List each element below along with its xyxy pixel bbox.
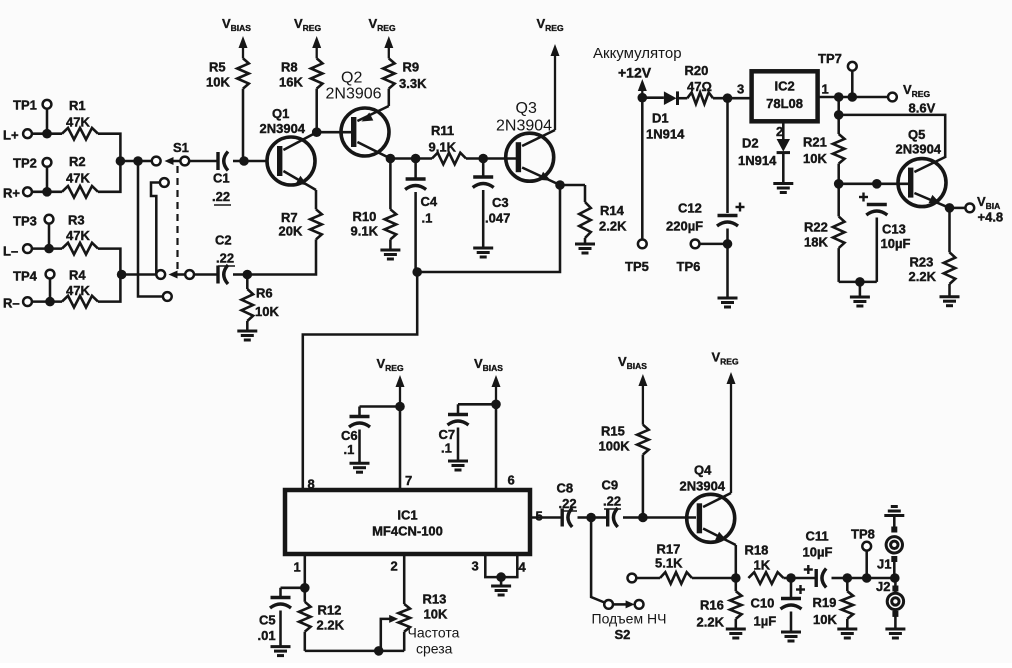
svg-text:C12: C12 [678, 201, 702, 216]
resistor R3 47K [62, 213, 120, 272]
pin 8 label IC1 [308, 477, 315, 492]
wire R22/C13 bottoms [839, 281, 877, 284]
ground below R23 [940, 297, 960, 306]
resistor R6 10K [242, 275, 280, 331]
svg-text:C5: C5 [259, 613, 276, 628]
svg-text:.1: .1 [422, 211, 433, 226]
pin 3 label IC1 [472, 559, 479, 574]
wire Q1 collector to Q2 base [317, 131, 351, 134]
svg-text:5: 5 [536, 509, 543, 524]
resistor R20 47Ω [685, 63, 714, 104]
svg-text:10K: 10K [255, 304, 279, 319]
svg-text:R15: R15 [601, 424, 625, 439]
transistor Q4 2N3904 [680, 463, 736, 546]
capacitor C5 .01 [258, 588, 305, 646]
power arrow +12V [638, 79, 647, 98]
wire +12V to TP5 [641, 98, 644, 240]
svg-text:S1: S1 [173, 140, 189, 155]
ground below R10 [380, 250, 400, 259]
transistor Q3 2N3904 [496, 100, 560, 185]
wire IC2 pin 1 output rail [818, 96, 889, 99]
node R18/C10/C11 [786, 573, 796, 583]
wire pin 5 to C8 [530, 516, 562, 519]
IC IC2 78L08 [752, 71, 818, 121]
svg-text:R19: R19 [813, 595, 837, 610]
wire R- line [32, 300, 62, 303]
ground below C12 [718, 298, 738, 307]
svg-text:L+: L+ [3, 128, 19, 143]
svg-text:78L08: 78L08 [766, 96, 803, 111]
svg-text:R23: R23 [910, 255, 934, 270]
svg-text:2N3904: 2N3904 [680, 479, 726, 494]
node A summing junction R1/R2 [116, 156, 138, 166]
test point TP1 [13, 98, 51, 134]
svg-text:D1: D1 [652, 111, 669, 126]
svg-text:TP1: TP1 [13, 98, 37, 113]
IC IC1 MF4CN-100 [285, 490, 530, 554]
node +12V input [638, 93, 648, 103]
power flag V_BIAS (IC1 pin 6) [474, 356, 503, 404]
svg-text:5.1K: 5.1K [655, 556, 683, 571]
resistor R18 1K [745, 543, 792, 584]
ground below C5 [271, 647, 291, 656]
test point TP6 [677, 240, 728, 275]
svg-text:Q4: Q4 [694, 463, 712, 478]
svg-text:C13: C13 [882, 222, 906, 237]
power flag V_REG (Q4 collector) [712, 350, 739, 494]
ground below pins 3-4 [491, 586, 511, 595]
ground above J1 (inverted) [884, 507, 904, 516]
svg-text:R9: R9 [403, 60, 420, 75]
svg-text:1: 1 [294, 560, 301, 575]
wire R+ line [32, 191, 62, 194]
potentiometer R13 10K (cutoff frequency) [381, 592, 460, 657]
wire L+ line [32, 132, 62, 135]
resistor R21 10K [803, 115, 845, 184]
node C8/C9/S2 [586, 513, 596, 523]
node pin1/TP7 [848, 92, 858, 102]
svg-text:.22: .22 [216, 251, 234, 266]
svg-text:.1: .1 [441, 441, 452, 456]
svg-text:9.1K: 9.1K [429, 140, 457, 155]
label battery (Аккумулятор +12V) [593, 45, 682, 81]
wire C1 to Q1 base node [233, 160, 268, 163]
node TP2/R+ junction [42, 187, 52, 197]
switch S1 label [173, 140, 189, 155]
power flag V_REG (IC1 pin 7) [377, 356, 405, 407]
svg-text:47K: 47K [66, 283, 90, 298]
wire R20 to IC2 pin 3 [713, 97, 751, 100]
resistor R4 47K [62, 268, 120, 308]
node R20/C12 [723, 93, 733, 103]
svg-text:IC1: IC1 [397, 508, 417, 523]
svg-text:TP3: TP3 [13, 214, 37, 229]
svg-text:2.2K: 2.2K [909, 269, 937, 284]
wire L- line [32, 247, 62, 250]
svg-text:2.2K: 2.2K [697, 615, 725, 630]
node R21 top / Q5 collector rail [834, 110, 844, 120]
svg-text:C8: C8 [557, 481, 574, 496]
wire pin 2 [403, 554, 406, 604]
input terminal R- [3, 296, 32, 311]
svg-text:Частота: Частота [408, 625, 460, 641]
pin 5 label IC1 [536, 509, 543, 524]
svg-text:8.6V: 8.6V [909, 101, 936, 116]
svg-text:18K: 18K [804, 235, 828, 250]
wire Q4 base [643, 516, 696, 519]
wire output rail [847, 577, 895, 580]
resistor R17 5.1K [628, 542, 736, 584]
capacitor C13 10µF [859, 193, 910, 282]
resistor R22 18K [804, 184, 845, 282]
resistor R9 3.3K [383, 58, 427, 106]
svg-text:TP7: TP7 [818, 51, 842, 66]
svg-text:Аккумулятор: Аккумулятор [593, 45, 682, 62]
power flag V_BIAS (R15) [618, 354, 647, 425]
switch S1 upper alternate contact [151, 178, 169, 274]
node TP1/L+ junction [42, 129, 52, 139]
svg-text:6: 6 [508, 473, 515, 488]
wire S1 upper wiper to C1 [189, 160, 218, 163]
input terminal L- [3, 244, 32, 259]
svg-text:100K: 100K [599, 439, 631, 454]
svg-text:R11: R11 [431, 123, 454, 138]
node C9/R15/Q4 base [638, 513, 648, 523]
wire Q5 collector rail [839, 115, 946, 158]
svg-text:16K: 16K [279, 75, 303, 90]
pin 7 label IC1 [405, 473, 412, 488]
ground below R16 [726, 629, 746, 638]
wire node A to S1 upper contact [133, 156, 152, 166]
resistor R15 100K [599, 424, 649, 518]
svg-text:R3: R3 [68, 213, 85, 228]
svg-text:R22: R22 [804, 220, 828, 235]
switch S1 gang dashed link [176, 166, 178, 270]
svg-text:S2: S2 [615, 627, 631, 642]
svg-text:J2: J2 [876, 579, 890, 594]
svg-text:TP6: TP6 [677, 259, 701, 274]
node R13 wiper junction [374, 646, 384, 656]
wire Q2 collector rail [390, 157, 432, 160]
svg-text:R10: R10 [353, 209, 377, 224]
node Q2 collector / R10 [386, 154, 396, 164]
svg-text:Подъем НЧ: Подъем НЧ [592, 611, 667, 627]
ground below C7 [448, 461, 468, 470]
switch S1 lower wiper [169, 270, 195, 279]
svg-text:R20: R20 [685, 63, 709, 78]
svg-text:R16: R16 [700, 598, 724, 613]
svg-text:R6: R6 [256, 286, 273, 301]
svg-text:R8: R8 [281, 60, 298, 75]
svg-text:1: 1 [822, 82, 829, 97]
node TP3/L- junction [44, 244, 54, 254]
svg-text:2N3904: 2N3904 [260, 121, 306, 136]
svg-text:Q1: Q1 [272, 106, 289, 121]
svg-text:220µF: 220µF [666, 219, 703, 234]
wire pin 7 [399, 407, 402, 491]
node pins 3-4 ground [496, 572, 506, 585]
svg-text:C11: C11 [806, 529, 829, 544]
wire pins 3-4 to ground [485, 554, 517, 577]
svg-text:.22: .22 [212, 189, 230, 204]
svg-text:.22: .22 [603, 494, 621, 509]
svg-text:3.3K: 3.3K [399, 76, 427, 91]
pin 6 label IC1 [508, 473, 515, 488]
svg-text:10µF: 10µF [803, 545, 833, 560]
ground below C6 [350, 463, 370, 472]
svg-text:.01: .01 [258, 628, 276, 643]
pin 3 label IC2 [737, 82, 744, 97]
svg-text:3: 3 [737, 82, 744, 97]
svg-text:Q5: Q5 [908, 127, 925, 142]
test point TP7 [818, 51, 857, 97]
ground below J2 [885, 629, 905, 638]
node R21/R22/C13/Q5 base [834, 179, 844, 189]
resistor R5 10K [206, 58, 249, 161]
svg-text:2: 2 [391, 559, 398, 574]
wire C12 stem [726, 98, 729, 213]
node B summing junction R3/R4 [117, 270, 156, 280]
svg-text:IC2: IC2 [774, 79, 794, 94]
svg-text:2N3906: 2N3906 [326, 86, 382, 103]
svg-text:R5: R5 [209, 60, 226, 75]
pin 1 label IC1 [294, 560, 301, 575]
pin 2 label IC1 [391, 559, 398, 574]
wire R12/R13 bottom link [305, 650, 404, 653]
resistor R8 16K [279, 58, 323, 132]
capacitor C9 .22 [595, 478, 639, 528]
svg-text:C1: C1 [213, 171, 230, 186]
wire Q3 emitter to C4 node rail [417, 185, 560, 272]
wire pin 1 [304, 554, 307, 588]
node C3 top [478, 154, 488, 164]
power flag V_BIAS (R5) [222, 16, 251, 58]
svg-text:R17: R17 [657, 542, 681, 557]
resistor R12 2.2K [299, 588, 345, 651]
svg-text:3: 3 [472, 559, 479, 574]
svg-text:J1: J1 [877, 557, 891, 572]
transistor Q2 2N3906 (PNP) [326, 70, 391, 159]
ground below R19 [837, 629, 857, 638]
node pin1/R21 [834, 92, 844, 102]
svg-text:TP2: TP2 [13, 156, 37, 171]
pin 4 label IC1 [519, 560, 527, 575]
svg-text:R21: R21 [803, 135, 827, 150]
node Q4 emitter / R16 / R17 / R18 [731, 573, 741, 583]
svg-text:1N914: 1N914 [646, 127, 685, 142]
svg-text:C2: C2 [215, 233, 232, 248]
svg-text:R18: R18 [745, 543, 769, 558]
svg-text:TP8: TP8 [851, 527, 875, 542]
svg-text:TP5: TP5 [625, 259, 649, 274]
svg-text:R1: R1 [69, 98, 86, 113]
switch S1 upper wiper [165, 157, 190, 166]
svg-text:4: 4 [519, 560, 527, 575]
svg-text:R2: R2 [69, 154, 86, 169]
svg-text:D2: D2 [742, 136, 759, 151]
svg-text:20K: 20K [279, 224, 303, 239]
svg-text:10K: 10K [813, 612, 837, 627]
node Q5 emitter [945, 203, 955, 213]
node C4 bottom junction [412, 267, 422, 277]
node TP8 [862, 573, 872, 583]
resistor R19 10K [813, 578, 854, 628]
svg-text:47K: 47K [66, 228, 90, 243]
node pin1/C5/R12 [300, 583, 310, 593]
svg-text:C4: C4 [421, 194, 438, 209]
svg-text:C10: C10 [751, 596, 775, 611]
capacitor C6 .1 [341, 407, 400, 463]
switch S1 lower contact [156, 270, 165, 279]
ground below C10 [781, 632, 801, 641]
test point TP8 [851, 527, 875, 579]
svg-text:47K: 47K [66, 171, 90, 186]
capacitor C3 .047 [473, 159, 511, 248]
node J1/J2 [890, 573, 900, 583]
wire R11 to Q3 base [466, 157, 518, 160]
node ground R22/C13 [855, 277, 865, 296]
wire pin 6 [495, 404, 498, 490]
wire Q4 emitter down [735, 545, 738, 578]
svg-text:Q3: Q3 [516, 100, 537, 117]
svg-text:.1: .1 [344, 442, 355, 457]
svg-text:R14: R14 [600, 203, 625, 218]
power flag V_REG (R8) [294, 16, 321, 58]
wire node A to S1 lower alternate contact [138, 161, 163, 297]
jack J1 (RCA) [877, 517, 903, 579]
wire pin1 node down to collector rail [837, 97, 840, 115]
resistor R14 2.2K [560, 185, 627, 243]
svg-text:+12V: +12V [618, 65, 652, 81]
jack J2 (RCA) [876, 578, 904, 628]
svg-text:2.2K: 2.2K [599, 219, 627, 234]
node TP4/R- junction [45, 297, 55, 307]
svg-text:R4: R4 [69, 268, 86, 283]
power flag V_REG (Q3 collector) [537, 16, 564, 130]
switch S1 upper contact [152, 157, 161, 166]
svg-text:1µF: 1µF [754, 614, 777, 629]
terminal V_REG 8.6V [888, 82, 936, 116]
svg-text:10K: 10K [424, 607, 448, 622]
svg-text:C3: C3 [492, 195, 509, 210]
svg-text:TP4: TP4 [13, 269, 38, 284]
svg-text:1N914: 1N914 [738, 153, 777, 168]
capacitor C12 220µF [666, 201, 745, 298]
input terminal R+ [3, 186, 32, 201]
svg-text:среза: среза [416, 641, 453, 657]
node TP6/C12 [723, 239, 733, 249]
svg-text:2.2K: 2.2K [317, 618, 345, 633]
resistor R2 47K [62, 154, 120, 198]
svg-text:10K: 10K [803, 151, 827, 166]
power flag V_REG (R9) [369, 16, 396, 58]
transistor Q5 2N3904 [896, 127, 950, 208]
svg-text:7: 7 [405, 473, 412, 488]
svg-text:MF4CN-100: MF4CN-100 [372, 524, 443, 539]
test point TP5 [625, 240, 649, 275]
svg-text:2N3904: 2N3904 [896, 142, 942, 157]
svg-text:10µF: 10µF [881, 236, 911, 251]
resistor R11 9.1K [429, 123, 467, 164]
node C11/R19 [843, 573, 853, 583]
pin 2 label IC2 [776, 124, 783, 139]
diode D2 1N914 [738, 121, 790, 182]
svg-text:R+: R+ [3, 186, 20, 201]
node C13 top [872, 179, 882, 189]
capacitor C11 10µF [791, 529, 847, 588]
capacitor C4 .1 [405, 159, 438, 273]
switch S1 lower alternate contact [163, 292, 172, 301]
ground below R22/C13 [850, 297, 870, 306]
svg-text:Q2: Q2 [341, 70, 362, 87]
node pin7/C6 [395, 402, 405, 412]
terminal V_BIAS +4.8 (Q5 emitter) [954, 194, 1003, 225]
node Q1 collector / R8 / Q2 base [312, 127, 322, 137]
pin 1 label IC2 [822, 82, 829, 97]
svg-text:2N3904: 2N3904 [496, 118, 552, 135]
resistor R1 47K [62, 98, 120, 157]
svg-text:10K: 10K [206, 75, 230, 90]
svg-text:R12: R12 [318, 603, 342, 618]
ground below R14 [575, 244, 595, 253]
capacitor C8 .22 [557, 481, 588, 528]
svg-text:C6: C6 [341, 428, 358, 443]
node Q3 emitter [555, 180, 565, 190]
svg-text:R13: R13 [423, 592, 447, 607]
input terminal L+ [3, 128, 32, 143]
capacitor C7 .1 [439, 404, 497, 460]
node C1/R5/Q1 base [239, 156, 249, 166]
svg-text:.047: .047 [485, 211, 510, 226]
node C2/R6/R7 [243, 270, 253, 280]
svg-text:+4.8: +4.8 [978, 210, 1004, 225]
svg-text:47K: 47K [66, 115, 90, 130]
resistor R10 9.1K [351, 159, 397, 250]
diode D1 1N914 [642, 91, 687, 141]
capacitor C2 .22 [215, 233, 235, 285]
svg-text:C9: C9 [602, 478, 619, 493]
capacitor C10 1µF [751, 578, 806, 631]
wire base node to Q5 [839, 183, 908, 186]
test point TP3 [13, 214, 53, 249]
resistor R23 2.2K [909, 208, 956, 296]
test point TP4 [13, 269, 54, 302]
resistor R16 2.2K [697, 578, 742, 630]
node C4 top [411, 154, 421, 164]
ground below R6 [237, 331, 257, 340]
svg-text:1K: 1K [754, 558, 771, 573]
switch S2 (bass boost) [591, 518, 666, 643]
transistor Q1 2N3904 [260, 106, 317, 190]
svg-text:R–: R– [3, 296, 20, 311]
ground below C3 [473, 248, 493, 257]
test point TP2 [13, 156, 51, 192]
wire S1 lower wiper to C2 [194, 273, 218, 276]
node pin6/C7 [491, 400, 501, 410]
wire C4 junction to IC1 pin 8 [303, 272, 417, 488]
svg-text:L–: L– [3, 244, 18, 259]
resistor R7 20K [247, 190, 321, 275]
ground below D2 [773, 184, 793, 193]
svg-text:9.1K: 9.1K [351, 224, 379, 239]
wire C2 to R6/R7 node [233, 273, 247, 276]
capacitor C1 .22 [212, 152, 231, 206]
